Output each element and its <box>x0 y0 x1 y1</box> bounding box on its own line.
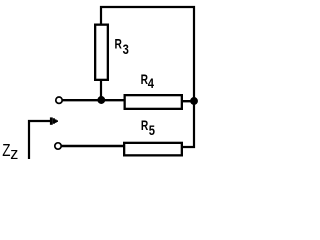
svg-text:5: 5 <box>149 123 155 138</box>
wire: R3 top stub, top horizontal run, right vertical rail, and stub into R5 right side <box>101 7 194 147</box>
svg-text:R: R <box>141 72 149 88</box>
impedance arrow Zz: head barb bar <box>50 117 53 124</box>
svg-text:3: 3 <box>123 42 129 57</box>
junction node: R4 right on right rail <box>190 97 198 105</box>
impedance arrow Zz: head stepped triangle <box>53 118 58 124</box>
svg-text:z: z <box>10 144 18 163</box>
wire: R3 bottom stub down to junction node <box>100 79 102 100</box>
wire: lower terminal row to R5 left lead <box>62 145 125 147</box>
svg-text:R: R <box>141 117 149 133</box>
resistor R3 body <box>95 25 108 80</box>
wire: upper terminal row to R4 left lead <box>63 99 126 101</box>
terminal: lower open circle <box>55 143 61 149</box>
svg-text:R: R <box>115 36 123 52</box>
wire: R4 right lead to right rail <box>182 100 194 102</box>
terminal: upper open circle <box>56 97 62 103</box>
svg-text:4: 4 <box>148 76 154 91</box>
resistor R4 body <box>125 95 182 109</box>
impedance arrow Zz: vertical riser and horizontal shaft <box>29 121 52 159</box>
junction node: R3 bottom on upper row <box>97 96 105 104</box>
resistor R5 body <box>124 143 182 156</box>
